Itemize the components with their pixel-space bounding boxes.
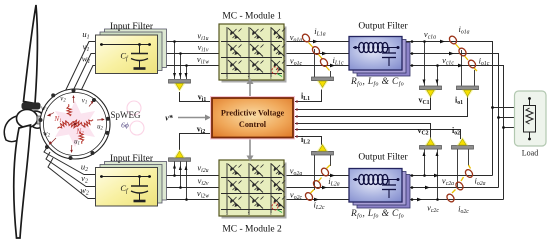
current sensor iL1b [311, 45, 322, 58]
wire io2 feedback [295, 130, 461, 140]
wire vo2c [284, 199, 351, 201]
svg-text:Predictive Voltage: Predictive Voltage [221, 109, 285, 118]
inductor Lfo filter1 [353, 47, 360, 49]
current sensor iL1a [301, 33, 314, 48]
svg-text:Input Filter: Input Filter [110, 154, 154, 164]
wire vC2 feedback [295, 124, 431, 140]
MC1 cell c3 highlight [272, 67, 278, 74]
wire v2 [46, 152, 97, 187]
svg-text:MC - Module 1: MC - Module 1 [222, 12, 282, 22]
current sensor iL2a [320, 165, 330, 177]
sensor iL2 legs [314, 155, 316, 190]
node bus c [502, 126, 505, 129]
svg-text:c: c [270, 75, 272, 80]
wind turbine hub cap [22, 103, 41, 110]
sensor io1 [457, 86, 479, 90]
arrows on wires after MC1 sensors [313, 40, 463, 202]
wire u2 generator to input filter 2 [44, 146, 97, 175]
svg-text:Output Filter: Output Filter [358, 22, 408, 32]
wire load stub c [504, 127, 515, 129]
current sensor io2b [454, 177, 464, 191]
current sensor iL2c [304, 190, 314, 202]
capacitor Cf filter2 [139, 177, 141, 187]
sensor vi2 [169, 158, 191, 162]
wire vc2a filter2 out [402, 175, 493, 177]
sensor io2 [452, 146, 474, 150]
current sensor io1a [448, 35, 460, 49]
svg-text:a: a [226, 75, 228, 80]
sensor io1 legs [461, 50, 463, 86]
current sensor io2a [464, 165, 474, 179]
wire vi2 to control [180, 134, 211, 151]
wire vo2b [284, 187, 351, 189]
load resistor [529, 99, 531, 106]
wire filter1 internal [100, 44, 151, 46]
sensor vC2 legs [424, 149, 426, 175]
current sensor io2c [445, 190, 455, 204]
capacitor Cfo filter1 [388, 48, 390, 54]
control arrow up to MC1 [249, 82, 251, 96]
sensor io2 legs [457, 149, 459, 188]
wire vi1 to control [180, 92, 211, 102]
MC module 1 [219, 24, 287, 83]
generator windings star N2 [66, 118, 95, 144]
wire iL2 feedback [295, 137, 322, 146]
node filter2 out a [411, 174, 414, 177]
wind turbine blade lower [14, 125, 31, 238]
svg-text:Input Filter: Input Filter [110, 22, 154, 32]
load box [515, 91, 547, 146]
sensor vC2 [420, 146, 442, 150]
wire vo1b [284, 53, 351, 55]
wind turbine hub [17, 110, 38, 128]
wire w2 [48, 158, 97, 199]
wire io1 feedback [295, 96, 468, 117]
svg-text:c: c [270, 211, 272, 216]
wire vc1c bus c [402, 66, 504, 200]
sensor vi1 [169, 80, 191, 84]
svg-text:MC - Module 2: MC - Module 2 [222, 225, 282, 235]
output filter 1 [349, 37, 410, 77]
node bus b [497, 116, 500, 119]
generator terminal dots [39, 89, 110, 161]
sensor iL1 legs [314, 49, 316, 77]
wire vi1w [157, 65, 219, 67]
predictive voltage control block [210, 96, 295, 140]
svg-text:a: a [226, 211, 228, 216]
wind turbine petal right [29, 111, 44, 128]
capacitor Cfo filter2 [388, 180, 390, 186]
sensor iL2 [312, 151, 334, 155]
node filter1 out a [411, 40, 414, 43]
node bus a [491, 106, 494, 109]
wire u1 generator to input filter 1 [62, 42, 97, 99]
svg-text:SpWEG: SpWEG [111, 110, 141, 120]
wire vi2w [157, 199, 219, 201]
wire load stub b [499, 117, 515, 119]
wire w1 [77, 66, 97, 100]
generator phase labels [41, 96, 103, 147]
input filter 2 [96, 162, 167, 207]
capacitor Cf filter1 [139, 45, 141, 54]
node filter1 out c [411, 64, 414, 67]
svg-text:v*: v* [165, 114, 174, 123]
node filter1 out b [411, 52, 414, 55]
wire vi2v [157, 187, 219, 189]
sensor vC1 legs [424, 42, 426, 86]
wire vi1 sensor legs [175, 42, 187, 80]
node feedback line ends [296, 100, 298, 137]
sensor iL1 [312, 77, 334, 81]
MC module 2 [219, 160, 287, 219]
sensor vC1 [420, 86, 442, 90]
output filter 2 [349, 169, 410, 209]
MC2 cell c3 highlight [272, 203, 278, 210]
generator terminal arrows [47, 95, 105, 153]
svg-text:Load: Load [522, 149, 538, 158]
decorative pink circles [127, 101, 141, 115]
wire v1 [70, 54, 97, 98]
current sensor iL1c [319, 57, 330, 70]
wire vc1a filter1 to load bus a [402, 42, 493, 176]
wire vo2a MC2 to output filter 2 [284, 175, 351, 177]
node filter2 out c [411, 198, 414, 201]
wire vc2c [402, 199, 504, 201]
current sensor iL2b [312, 178, 322, 190]
node filter2 out b [411, 186, 414, 189]
wire vC1 feedback [295, 96, 431, 110]
wind turbine nacelle petal left [4, 115, 30, 141]
wire vc2b [402, 187, 499, 189]
current sensor io1c [467, 59, 477, 71]
inductor Lfo filter2 [353, 179, 360, 181]
svg-text:Control: Control [239, 120, 267, 129]
generator shaft [37, 116, 42, 124]
wire vi2u filter2 to MC2 [157, 175, 219, 177]
wire vo1a MC1 to output filter 1 [284, 41, 351, 43]
wire filter2 internal [100, 176, 151, 178]
svg-text:Output Filter: Output Filter [358, 153, 408, 163]
generator SpWEG [39, 89, 111, 161]
input filter 1 [96, 29, 167, 74]
generator windings star N1 [56, 104, 94, 144]
v* reference arrow [178, 117, 205, 119]
control arrow down to MC2 [249, 140, 251, 158]
wire vi1v [157, 53, 219, 55]
wire iL1 feedback [295, 90, 322, 102]
wire load stub a [493, 107, 515, 109]
svg-text:6ϕ: 6ϕ [121, 121, 129, 130]
wire vi1u filter1 to MC1 [157, 41, 219, 43]
current sensor io1b [457, 47, 468, 60]
wire vi2 sensor legs [175, 162, 187, 200]
wire vo1c [284, 65, 351, 67]
wire vc1b bus b [402, 54, 499, 188]
wind turbine blade upper [24, 5, 38, 104]
